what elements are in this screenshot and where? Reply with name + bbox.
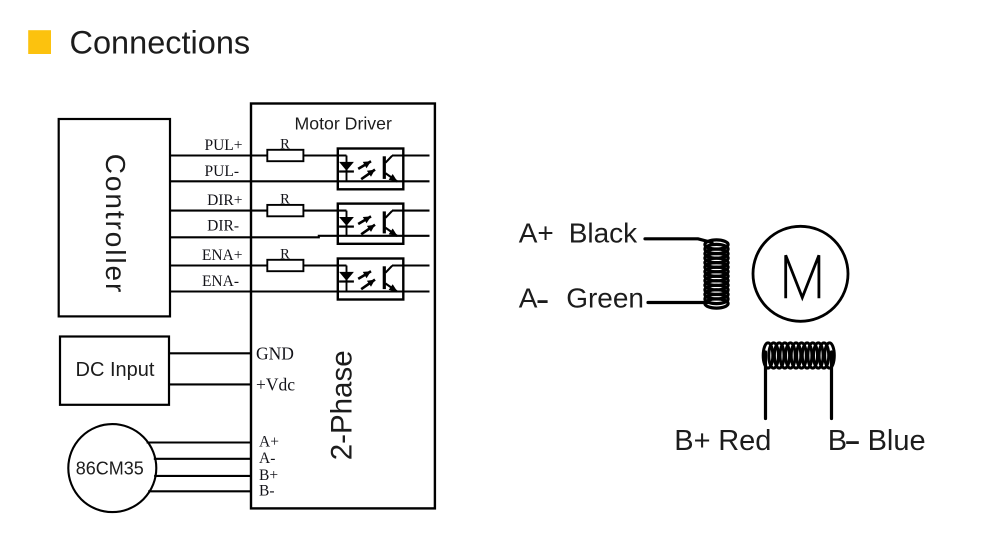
dc input label (76, 359, 155, 381)
motor letter M (786, 255, 819, 298)
wire collector out row 1 (392, 154, 430, 156)
label ENA- (202, 273, 239, 290)
coil B right leg wire (830, 352, 833, 419)
optocoupler U1 light arrow 2 (361, 170, 375, 180)
optocoupler U3 light arrow 1 (358, 271, 371, 279)
svg-text:DIR+: DIR+ (207, 192, 242, 209)
svg-text:2-Phase: 2-Phase (326, 350, 359, 460)
wire resistor R2 to LED (303, 210, 346, 212)
svg-text:Blue: Blue (868, 425, 926, 457)
wire B- (motor to driver) (148, 490, 251, 492)
optocoupler U3 LED diode triangle (339, 272, 354, 281)
86CM35 label (76, 458, 144, 478)
resistor R3 (267, 260, 303, 271)
label PUL+ (204, 137, 242, 154)
label R1 (280, 137, 290, 153)
svg-text:PUL+: PUL+ (204, 137, 242, 154)
svg-text:B: B (828, 425, 847, 457)
coil B (phase B winding) (763, 343, 834, 368)
label DIR+ (207, 192, 242, 209)
label PUL- (205, 163, 239, 180)
svg-text:ENA+: ENA+ (202, 247, 243, 264)
2-Phase label (rotated) (326, 350, 359, 460)
controller box (59, 119, 170, 316)
svg-text:R: R (280, 247, 290, 263)
86CM35 motor circle (68, 424, 156, 512)
wire A- Green to coil (648, 301, 708, 304)
svg-text:Connections: Connections (70, 25, 251, 61)
label A+ (259, 434, 279, 451)
label B- Blue (828, 425, 926, 457)
label R2 (280, 192, 290, 208)
motor driver box (251, 104, 435, 509)
svg-text:A+: A+ (519, 218, 554, 249)
wire ENA+ (controller to resistor R3) (170, 264, 267, 266)
svg-text:GND: GND (256, 344, 294, 364)
optocoupler U2 box (338, 204, 404, 244)
svg-text:Green: Green (566, 283, 644, 314)
svg-text:86CM35: 86CM35 (76, 458, 144, 478)
optocoupler U1 LED anode/cathode vertical wire (346, 156, 348, 182)
wire PUL+ (controller to resistor R1) (170, 154, 267, 156)
svg-text:R: R (280, 137, 290, 153)
svg-text:B+: B+ (259, 467, 278, 484)
svg-text:A: A (519, 283, 538, 314)
optocoupler U1 LED diode triangle (339, 162, 354, 171)
wire GND (169, 352, 251, 354)
optocoupler U3 light arrow 2 (361, 280, 375, 290)
wire A+ Black to coil (645, 239, 712, 243)
title bullet square (28, 30, 51, 54)
motor circle (753, 226, 848, 321)
optocoupler U1 phototransistor (384, 156, 397, 182)
svg-text:Controller: Controller (100, 154, 131, 294)
label B+ Red (674, 425, 771, 457)
controller label (rotated) (100, 154, 131, 294)
resistor R1 (267, 150, 303, 161)
optocoupler U2 LED cathode bar (339, 226, 354, 228)
wire resistor R3 to LED (303, 264, 346, 266)
label +Vdc (256, 374, 295, 394)
svg-text:B+: B+ (674, 425, 710, 457)
label ENA+ (202, 247, 243, 264)
optocoupler U1 light arrow 1 (358, 161, 371, 169)
optocoupler U3 LED anode/cathode vertical wire (346, 266, 348, 292)
coil B left leg wire (764, 352, 767, 419)
svg-text:A+: A+ (259, 434, 279, 451)
motor driver label (295, 113, 392, 133)
wire resistor R1 to LED (303, 154, 346, 156)
wire ENA- (controller through opto to collector rail) (170, 290, 430, 292)
wire DIR+ (controller to resistor R2) (170, 210, 267, 212)
optocoupler U2 LED anode/cathode vertical wire (346, 211, 348, 236)
optocoupler U3 phototransistor (384, 266, 397, 292)
label GND (256, 344, 294, 364)
wire PUL- (controller through opto to collector rail) (170, 180, 430, 182)
optocoupler U2 LED diode triangle (339, 217, 354, 226)
wire collector out row 3 (392, 264, 430, 266)
svg-text:A-: A- (259, 450, 275, 467)
svg-text:DC Input: DC Input (76, 359, 155, 381)
resistor R2 (267, 205, 303, 216)
coil A (phase A winding) (705, 240, 728, 308)
optocoupler U2 light arrow 2 (361, 225, 375, 235)
wire A- (motor to driver) (154, 458, 251, 460)
label DIR- (207, 218, 239, 235)
wire +Vdc (169, 383, 251, 385)
svg-text:R: R (280, 192, 290, 208)
label A- (259, 450, 275, 467)
label R3 (280, 247, 290, 263)
optocoupler U2 phototransistor (384, 211, 397, 236)
svg-text:Red: Red (718, 425, 771, 457)
optocoupler U3 LED cathode bar (339, 280, 354, 282)
optocoupler U2 light arrow 1 (358, 216, 371, 224)
wire B+ (motor to driver) (154, 475, 251, 477)
svg-text:B-: B- (259, 482, 275, 499)
svg-text:Black: Black (569, 218, 638, 249)
label A- Green (519, 283, 644, 314)
wire collector out row 2 (392, 210, 430, 212)
title text Connections (70, 25, 251, 61)
wire DIR- (controller to opto, with jog) (170, 236, 430, 238)
label A+ Black (519, 218, 638, 249)
svg-text:PUL-: PUL- (205, 163, 239, 180)
label B- (259, 482, 275, 499)
dc input box (60, 337, 169, 405)
optocoupler U1 LED cathode bar (339, 170, 354, 172)
optocoupler U3 box (338, 259, 404, 300)
wire A+ (motor to driver) (147, 441, 251, 443)
svg-text:Motor Driver: Motor Driver (295, 113, 392, 133)
label B+ (259, 467, 278, 484)
svg-text:ENA-: ENA- (202, 273, 239, 290)
svg-text:DIR-: DIR- (207, 218, 239, 235)
svg-text:+Vdc: +Vdc (256, 374, 295, 394)
optocoupler U1 box (338, 149, 404, 190)
